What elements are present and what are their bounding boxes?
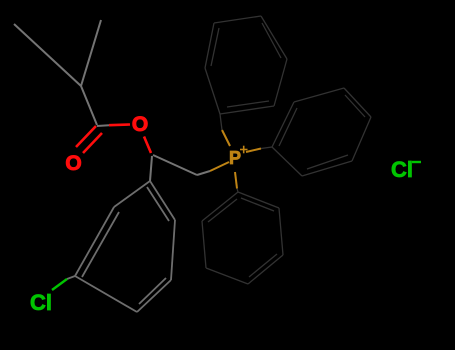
bond P to phenyl B	[246, 149, 261, 153]
carbonyl C=O double bond	[76, 126, 102, 153]
chlorophenyl ring	[75, 181, 175, 312]
phenyl B ring	[272, 88, 371, 176]
svg-text:Cl: Cl	[30, 290, 52, 315]
isopropyl methyl arm 1	[14, 24, 81, 86]
isopropyl methyl arm 2	[81, 20, 101, 86]
bond CH to carbonyl C	[81, 86, 97, 125]
ester C-O bond	[97, 124, 109, 127]
svg-text:P: P	[229, 148, 241, 168]
bond CH2 to P (orange part)	[210, 162, 229, 171]
phenyl C ring	[202, 192, 283, 284]
bond ring C to Cl	[67, 276, 75, 279]
bond O to CH	[144, 137, 151, 154]
bond CH2 to P (gray part)	[197, 171, 210, 175]
phenyl A ring	[205, 16, 287, 114]
bond CH to ring ipso	[150, 156, 152, 181]
bond CH to CH2	[153, 155, 197, 175]
svg-text:O: O	[132, 113, 148, 136]
bond P to phenyl A	[222, 130, 230, 146]
svg-text:O: O	[65, 152, 81, 175]
aromatic inner lines	[82, 212, 119, 277]
svg-text:Cl: Cl	[391, 157, 413, 182]
bond P to phenyl C	[235, 172, 237, 189]
